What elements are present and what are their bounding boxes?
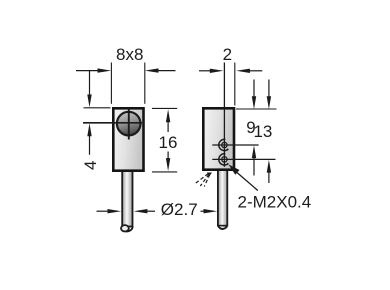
- svg-text:2-M2X0.4: 2-M2X0.4: [238, 192, 312, 211]
- 8x8 extension line right: [144, 63, 146, 104]
- body-top extension line to left: [84, 107, 111, 109]
- dimension 2 right arrow: [236, 69, 262, 73]
- 8x8 extension line left: [110, 63, 112, 104]
- dimension 16 extension line top: [152, 107, 177, 109]
- dimension 16 line lower with down arrow: [166, 152, 170, 172]
- screw hole 1 (upper): [219, 139, 229, 150]
- crosshair horizontal / extension to 4-dim: [83, 122, 142, 124]
- sensor body (right view): [203, 108, 234, 169]
- hole centerline vertical / 2-dim left extension: [223, 63, 225, 167]
- dimension 16 line upper with up arrow: [166, 109, 170, 132]
- body-top extension line to right: [236, 108, 277, 110]
- hole 2 center extension line: [212, 158, 275, 160]
- svg-text:4: 4: [81, 161, 100, 170]
- Ø2.7 arrow to right-view cable: [201, 209, 218, 213]
- dimension 4 upper arrow (down): [87, 71, 91, 108]
- dimension 16 extension line bottom: [152, 171, 177, 173]
- crosshair vertical (circle centerline): [128, 108, 130, 140]
- leader line for 2-M2X0.4: [228, 164, 257, 190]
- svg-text:13: 13: [253, 122, 272, 141]
- dimension Ø2.7 left arrow (points right at cable): [97, 209, 122, 213]
- 8x8 dim line left with arrow: [76, 68, 111, 72]
- svg-text:16: 16: [159, 133, 178, 152]
- sensing face circle: [117, 112, 141, 136]
- dimension 9 upper arrow (down): [252, 80, 256, 110]
- hole 1 center extension line: [212, 144, 258, 146]
- svg-text:8x8: 8x8: [116, 45, 143, 64]
- screw hole 2 (lower): [219, 154, 229, 165]
- cable (left view): [121, 171, 133, 232]
- dimension 4 lower arrow (up): [87, 123, 91, 155]
- dimension 13 lower arrow (up): [267, 160, 271, 183]
- dimension 13 upper arrow (down): [267, 80, 271, 110]
- svg-text:Ø2.7: Ø2.7: [161, 200, 198, 219]
- dimension 9 lower arrow (up): [252, 145, 256, 175]
- svg-text:2: 2: [223, 45, 232, 64]
- 2-dim right extension line: [234, 63, 236, 106]
- sensing direction rays: [196, 174, 210, 187]
- 8x8 dim line right with arrow: [145, 68, 176, 72]
- dimension 2 left arrow: [199, 69, 224, 73]
- dimension Ø2.7 right arrow (points left at cable): [134, 209, 155, 213]
- cable (right view): [218, 170, 227, 229]
- sensor body (left view): [113, 108, 143, 170]
